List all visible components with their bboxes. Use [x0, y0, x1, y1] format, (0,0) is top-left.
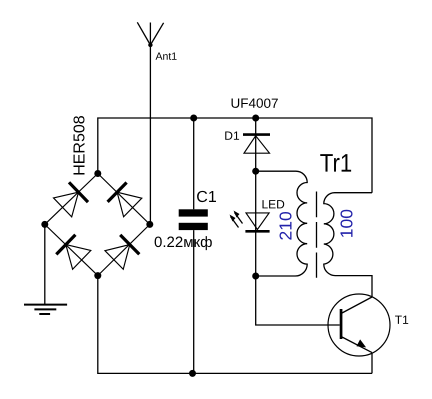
svg-text:Tr1: Tr1 [320, 149, 352, 178]
svg-text:210: 210 [276, 211, 296, 240]
svg-text:T1: T1 [395, 313, 409, 327]
svg-text:Ant1: Ant1 [155, 51, 177, 63]
svg-text:UF4007: UF4007 [230, 96, 278, 111]
svg-text:C1: C1 [196, 189, 217, 206]
svg-text:LED: LED [261, 197, 285, 211]
svg-text:D1: D1 [224, 129, 240, 143]
svg-text:100: 100 [336, 209, 356, 238]
svg-text:0.22мкф: 0.22мкф [154, 234, 212, 251]
svg-text:HER508: HER508 [72, 115, 89, 176]
